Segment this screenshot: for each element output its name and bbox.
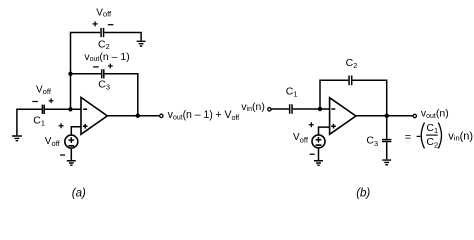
label + (C3 right polarity): [108, 64, 113, 69]
voltage source V_off: [312, 135, 325, 148]
wire (source to ground): [70, 148, 72, 160]
wire (C2 to top-right ground corner): [104, 33, 141, 41]
svg-text:Voff: Voff: [96, 8, 112, 19]
label - (C1 left polarity): [32, 101, 38, 103]
ground (far left): [12, 136, 22, 141]
node (output terminal a): [160, 114, 163, 117]
label v_out(n-1)+V_off (output): [168, 109, 240, 122]
wire (op-amp output): [107, 115, 159, 117]
capacitor C2: [349, 76, 352, 86]
label (b): [356, 188, 370, 200]
label (a): [72, 188, 86, 200]
label - (C2 right polarity): [108, 24, 114, 26]
label - (C3 left polarity): [93, 66, 99, 68]
svg-text:Voff: Voff: [36, 85, 52, 96]
ground (below source b): [314, 161, 323, 165]
wire (left vertical from top branch down to summing node): [70, 33, 72, 110]
svg-text:(a): (a): [72, 188, 86, 200]
wire (output node down to C3): [386, 116, 388, 139]
capacitor C3: [382, 140, 391, 142]
op-amp U2: [330, 98, 356, 135]
ground (top right): [137, 41, 146, 46]
label V_off (source): [45, 136, 61, 148]
label v_in(n) (input): [241, 101, 265, 113]
ground (below C3): [382, 160, 391, 165]
wire (op-amp output b): [356, 115, 413, 117]
wire (C1 to op-amp inverting input): [45, 108, 81, 110]
wire (left ground up to input branch and to C1): [16, 109, 41, 135]
capacitor C2: [101, 28, 104, 37]
wire (input terminal to C1): [271, 108, 289, 110]
node (output terminal b): [413, 114, 416, 117]
label v_out(n-1) (above C3): [84, 51, 129, 63]
op-amp U1: [81, 97, 107, 134]
label V_off (source): [293, 132, 309, 145]
label C3: [366, 135, 378, 148]
label C3: [98, 79, 110, 92]
svg-text:(b): (b): [356, 188, 370, 200]
label - (source V_off bottom polarity): [60, 154, 65, 156]
label C1: [33, 115, 45, 128]
label + (source V_off top polarity): [309, 122, 314, 127]
voltage source V_off: [65, 135, 78, 148]
wire (C3 right, down to output wire): [105, 74, 138, 116]
capacitor C3: [102, 69, 104, 78]
node (C3 to output junction): [136, 114, 140, 118]
wire (source to ground): [318, 148, 320, 160]
label + (C2 left polarity): [93, 21, 98, 26]
wire (C1 to op-amp inverting input): [293, 108, 330, 110]
label V_off (top, above C2): [96, 8, 112, 19]
node (feedback to output junction): [385, 114, 389, 118]
svg-text:=: =: [405, 132, 411, 144]
node (input terminal b): [268, 108, 271, 111]
capacitor C1: [290, 104, 292, 114]
label C2: [346, 57, 358, 70]
label - (source V_off bottom polarity): [310, 153, 315, 155]
wire (left segment of top branch to C2): [70, 32, 101, 34]
svg-text:vin(n): vin(n): [241, 101, 265, 113]
wire (C3 to ground): [386, 142, 388, 159]
wire (feedback up and across to C2): [320, 80, 348, 109]
node (summing node b): [318, 107, 322, 111]
svg-text:vin(n): vin(n): [448, 130, 473, 142]
wire (non-inverting input to source): [71, 127, 81, 135]
label V_off (input branch, above C1): [36, 85, 52, 96]
label equation = -(C1/C2)v_in(n): [405, 122, 473, 150]
label C1: [286, 86, 298, 99]
wire (non-inverting input to source): [319, 127, 330, 135]
ground (below source): [67, 161, 76, 165]
node (C3 tap junction): [68, 72, 72, 76]
capacitor C1: [42, 105, 44, 114]
label + (source V_off top polarity): [59, 123, 64, 128]
label + (C1 right polarity): [49, 98, 54, 103]
wire (node to C3): [71, 73, 101, 75]
label C2: [98, 38, 110, 51]
wire (C2 across and down to output): [352, 80, 386, 115]
label v_out(n) (output): [421, 107, 449, 120]
node (summing node junction): [68, 107, 72, 111]
